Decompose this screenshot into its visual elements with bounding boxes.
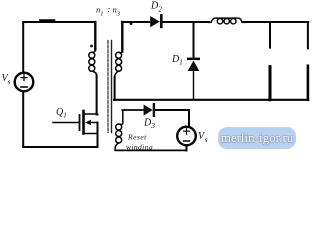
svg-text:D2: D2	[150, 1, 162, 14]
svg-text::: :	[108, 4, 111, 14]
svg-text:D3: D3	[143, 118, 155, 131]
svg-text:winding: winding	[126, 143, 153, 152]
svg-text:Vs: Vs	[2, 73, 11, 86]
svg-text:Vs: Vs	[198, 131, 208, 144]
svg-text:n1: n1	[96, 5, 104, 18]
svg-text:D1: D1	[171, 54, 183, 67]
svg-text:Reset: Reset	[127, 133, 147, 142]
svg-text:n3: n3	[113, 5, 121, 18]
svg-text:Q1: Q1	[56, 107, 67, 120]
